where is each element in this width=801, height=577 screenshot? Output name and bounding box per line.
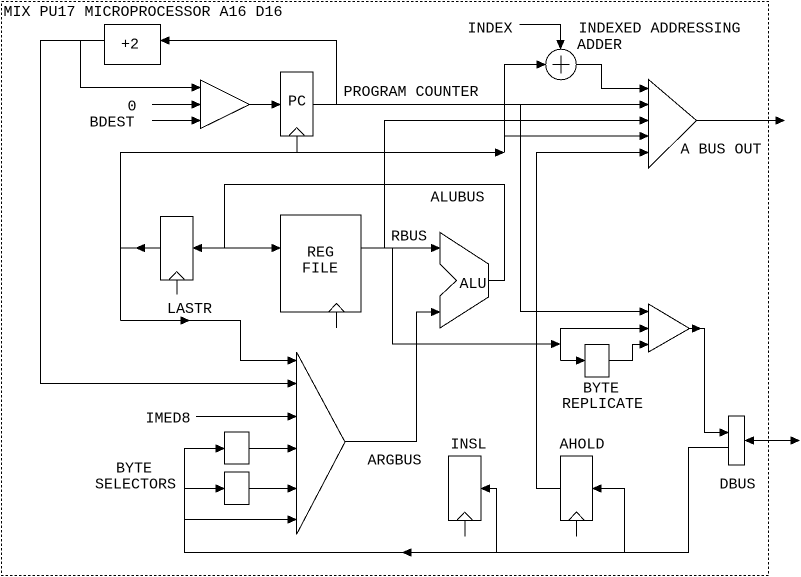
buffer A BUS OUT driver (triangle) bbox=[649, 80, 697, 169]
wire byte selector 2 output to ARGBUS mux input 5 bbox=[249, 485, 296, 492]
svg-text:BDEST: BDEST bbox=[90, 115, 135, 132]
svg-text:PROGRAM COUNTER: PROGRAM COUNTER bbox=[344, 84, 479, 101]
wire BDEST into PC mux input 3 bbox=[152, 117, 200, 124]
svg-text:FILE: FILE bbox=[302, 261, 338, 278]
wire into byte replicate box bbox=[561, 357, 585, 364]
register INSL bbox=[449, 456, 482, 537]
wire INDEX into adder top bbox=[520, 25, 565, 49]
wire byte replicate output to B bus driver input 3 bbox=[609, 341, 648, 361]
wire RBUS branch down to byte replicate feed bbox=[393, 248, 560, 348]
wire branch into byte selector 2 input bbox=[185, 485, 225, 492]
byte selector box 1 bbox=[225, 432, 250, 464]
wire PC mux output to PC register bbox=[250, 101, 281, 108]
wire ARGBUS output up to ALU input 2 bbox=[345, 309, 440, 442]
svg-text:PC: PC bbox=[288, 94, 306, 111]
svg-text:INDEX: INDEX bbox=[468, 21, 513, 38]
svg-text:AHOLD: AHOLD bbox=[560, 437, 605, 454]
mux ARGBUS (large triangle) bbox=[297, 352, 346, 535]
wire register input bus into LASTR and REG FILE bbox=[121, 245, 281, 252]
svg-text:A BUS OUT: A BUS OUT bbox=[681, 142, 762, 159]
wire LASTR bus down to ARGBUS mux input 1 bbox=[121, 317, 297, 364]
register AHOLD bbox=[561, 456, 593, 537]
wire adder output to A BUS OUT driver input 1 bbox=[576, 65, 648, 93]
wire PC bus branch down to B bus driver input 1 bbox=[521, 105, 649, 316]
wire IMED8 into ARGBUS mux input 3 bbox=[196, 413, 296, 420]
svg-text:REPLICATE: REPLICATE bbox=[562, 396, 643, 413]
wire feedback vertical into byte selector 1 input bbox=[185, 445, 729, 556]
register DBUS bbox=[729, 416, 745, 465]
wire +2 output branch down to PC mux input 1 bbox=[81, 41, 201, 92]
mux for PC source (triangle) bbox=[201, 80, 250, 129]
svg-text:REG: REG bbox=[307, 245, 334, 262]
wire B bus driver output down to DBUS register bbox=[690, 325, 729, 436]
wire RBUS branch up to A BUS OUT driver input 3 bbox=[385, 117, 649, 248]
svg-text:ALU: ALU bbox=[460, 276, 487, 293]
byte selector box 2 bbox=[225, 472, 250, 505]
svg-text:IMED8: IMED8 bbox=[146, 411, 191, 428]
svg-text:BYTE: BYTE bbox=[116, 461, 152, 478]
svg-text:0: 0 bbox=[128, 99, 137, 116]
svg-text:SELECTORS: SELECTORS bbox=[95, 477, 176, 494]
block BYTE REPLICATE bbox=[585, 345, 609, 378]
adder block +2 bbox=[105, 25, 161, 65]
svg-text:ALUBUS: ALUBUS bbox=[431, 190, 485, 207]
wire feedback into AHOLD input bbox=[593, 485, 625, 553]
svg-text:+2: +2 bbox=[121, 37, 139, 54]
wire PC output bus to A BUS OUT driver input 2 bbox=[313, 101, 648, 108]
svg-text:ARGBUS: ARGBUS bbox=[368, 453, 422, 470]
svg-text:INDEXED ADDRESSING: INDEXED ADDRESSING bbox=[579, 21, 741, 38]
svg-text:INSL: INSL bbox=[451, 437, 487, 454]
svg-text:ADDER: ADDER bbox=[577, 37, 622, 54]
indexed addressing adder (circle with plus) bbox=[546, 49, 577, 80]
wire PC output feedback up and left into +2 input bbox=[161, 37, 337, 105]
wire branch into ARGBUS mux input 6 bbox=[185, 516, 297, 523]
wire byte replicate feed split to B bus driver input 2 and byte replicate input bbox=[561, 325, 649, 361]
svg-text:DBUS: DBUS bbox=[720, 477, 756, 494]
svg-text:LASTR: LASTR bbox=[167, 301, 212, 318]
wire feedback into INSL input bbox=[482, 485, 497, 553]
register LASTR bbox=[161, 217, 194, 295]
wire AHOLD bus vertical up to A BUS OUT driver input 5 bbox=[537, 149, 649, 489]
wire ALUBUS from ALU output up and left down to register input bus bbox=[225, 185, 505, 281]
wire +2 output left to long left vertical down to ARGBUS mux input 2 bbox=[41, 41, 297, 388]
wire RBUS from REG FILE to ALU input 1 bbox=[361, 245, 440, 252]
wire adder operand vertical up to indexed adder input bbox=[505, 61, 546, 153]
wire byte selector 1 output to ARGBUS mux input 4 bbox=[249, 445, 296, 452]
svg-text:BYTE: BYTE bbox=[583, 381, 619, 398]
wire constant 0 into PC mux input 2 bbox=[152, 101, 200, 108]
alu ALU (notched polygon) bbox=[440, 233, 489, 329]
wire branch to A BUS OUT driver input 4 bbox=[505, 133, 649, 140]
register PC bbox=[281, 72, 314, 152]
register file REG FILE bbox=[281, 215, 362, 328]
wire A bus output through border to page edge bbox=[697, 117, 785, 124]
svg-text:RBUS: RBUS bbox=[391, 229, 427, 246]
svg-text:MIX PU17 MICROPROCESSOR A16 D1: MIX PU17 MICROPROCESSOR A16 D16 bbox=[4, 4, 283, 21]
wire LASTR bus up left vertical to indexed adder / A bus input 4 feed bbox=[121, 149, 504, 321]
wire DBUS bidirectional data bus to page edge bbox=[745, 437, 800, 444]
buffer B bus driver (triangle) bbox=[649, 304, 690, 352]
